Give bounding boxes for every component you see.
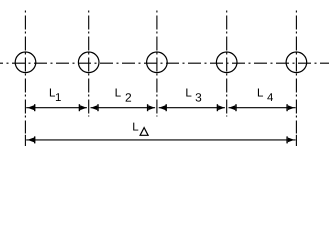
label L4 bbox=[258, 88, 273, 101]
arrow L4 left bbox=[229, 104, 237, 111]
vertical centerline hole 3 bbox=[156, 11, 158, 117]
glyph Ld-delta (triangle subscript) bbox=[140, 128, 148, 136]
arrow L-delta right bbox=[286, 136, 294, 143]
glyph L4-4 bbox=[267, 93, 273, 101]
vertical centerline hole 2 bbox=[88, 11, 90, 117]
glyph L4-L bbox=[258, 88, 263, 96]
glyph L1-L bbox=[50, 88, 55, 96]
overall dimension line L-delta bbox=[26, 139, 295, 141]
glyph L1-1 bbox=[56, 93, 61, 101]
vertical centerline hole 4 bbox=[226, 11, 228, 117]
hole 3 bbox=[147, 52, 168, 73]
glyph L3-L bbox=[186, 88, 191, 96]
hole 1 bbox=[15, 52, 36, 73]
hole 2 bbox=[78, 52, 99, 73]
label L2 bbox=[116, 88, 131, 101]
arrow L2 right bbox=[147, 104, 155, 111]
arrow L-delta left bbox=[27, 136, 35, 143]
vertical centerline hole 1 bbox=[24, 11, 26, 134]
glyph L2-2 bbox=[126, 93, 131, 101]
label L-delta bbox=[133, 123, 148, 136]
glyph L3-3 bbox=[196, 93, 202, 101]
arrow L1 right bbox=[79, 104, 87, 111]
hole 5 bbox=[286, 52, 307, 73]
chain dimension line L1-L4 bbox=[26, 107, 295, 109]
arrow L1 left bbox=[27, 104, 35, 111]
vertical centerline hole 5 bbox=[295, 11, 297, 134]
arrow L3 left bbox=[159, 104, 167, 111]
glyph Ld-L bbox=[133, 123, 138, 131]
label L3 bbox=[186, 88, 201, 101]
arrow L4 right bbox=[286, 104, 294, 111]
horizontal centerline bbox=[0, 62, 329, 64]
hole 4 bbox=[216, 52, 237, 73]
arrow L2 left bbox=[91, 104, 99, 111]
glyph L2-L bbox=[116, 88, 121, 96]
label L1 bbox=[50, 88, 61, 101]
arrow L3 right bbox=[217, 104, 225, 111]
